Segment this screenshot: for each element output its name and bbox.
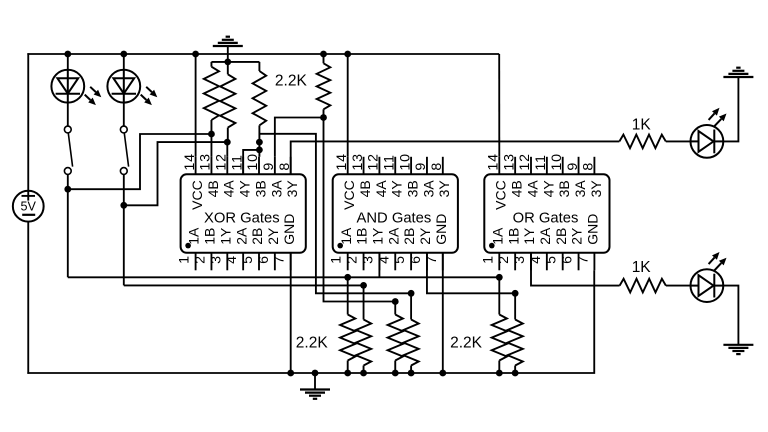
svg-text:5: 5 (392, 255, 408, 264)
svg-text:2: 2 (345, 255, 361, 264)
svg-text:4B: 4B (509, 180, 525, 197)
svg-text:VCC: VCC (341, 180, 357, 210)
node R2-4A (224, 139, 231, 146)
svg-text:6: 6 (256, 255, 272, 264)
svg-text:5V: 5V (20, 200, 36, 214)
node rail-R4 (320, 51, 327, 58)
svg-text:2A: 2A (385, 227, 401, 245)
svg-text:12: 12 (214, 153, 230, 170)
wire SW2 bottom run to AND 1B (124, 284, 364, 286)
wire R4 down to AND 2A (324, 118, 396, 302)
node AND GND-rail (439, 370, 446, 377)
wire OR 1Y to resistor R14 (531, 253, 620, 286)
ground GND top (213, 45, 243, 47)
svg-text:12: 12 (517, 153, 533, 170)
svg-text:1K: 1K (632, 259, 652, 276)
resistor R1 2.2K (210, 62, 212, 67)
wire SW1 down-left (67, 189, 69, 277)
svg-text:VCC: VCC (493, 180, 509, 210)
svg-text:3Y: 3Y (284, 180, 300, 198)
svg-text:2Y: 2Y (569, 227, 585, 245)
svg-text:VCC: VCC (189, 180, 205, 210)
wire 5V source minus down (27, 222, 29, 374)
svg-text:11: 11 (381, 154, 397, 170)
svg-text:5: 5 (240, 255, 256, 264)
svg-text:1A: 1A (489, 227, 505, 245)
svg-text:2.2K: 2.2K (275, 72, 308, 89)
wire OR 1B pulldown (514, 293, 516, 319)
node XOR GND-rail (287, 370, 294, 377)
LED D3 (691, 125, 724, 158)
resistor R3 2.2K (258, 62, 260, 71)
svg-text:3A: 3A (572, 180, 588, 198)
ground GND right-bottom (723, 344, 753, 346)
switch SW2 (120, 126, 127, 133)
svg-text:4Y: 4Y (540, 180, 556, 198)
wire XOR GND to rail (290, 253, 292, 373)
svg-text:6: 6 (560, 255, 576, 264)
svg-text:2B: 2B (249, 228, 265, 245)
wire R4 to XOR 3A (275, 118, 324, 157)
svg-text:4B: 4B (205, 180, 221, 197)
wire AND 1Y stub down (378, 253, 380, 277)
svg-text:11: 11 (533, 154, 549, 170)
wire AND 1B pulldown (363, 285, 365, 319)
svg-text:12: 12 (366, 153, 382, 170)
svg-text:8: 8 (581, 162, 597, 171)
LED D2 (107, 70, 140, 103)
wire SW2 to node (123, 174, 125, 205)
node rail-LED1 (64, 51, 71, 58)
svg-text:4: 4 (224, 255, 240, 264)
node R4net-AND2A (392, 298, 399, 305)
svg-text:XOR Gates: XOR Gates (204, 210, 280, 226)
node R12-rail (496, 370, 503, 377)
svg-text:1Y: 1Y (370, 227, 386, 245)
svg-text:13: 13 (350, 153, 366, 170)
svg-text:9: 9 (565, 162, 581, 171)
svg-text:3Y: 3Y (588, 180, 604, 198)
svg-text:2B: 2B (401, 228, 417, 245)
svg-text:1B: 1B (202, 228, 218, 245)
node ground-resistors (224, 59, 231, 66)
resistor R14 1K (620, 279, 666, 293)
svg-text:AND Gates: AND Gates (356, 210, 431, 226)
wire AND 2A pulldown (394, 302, 396, 315)
svg-text:3: 3 (208, 255, 224, 264)
svg-text:1Y: 1Y (217, 227, 233, 245)
svg-text:3B: 3B (252, 180, 268, 197)
svg-text:2A: 2A (537, 227, 553, 245)
wire bottom ground rail (27, 270, 594, 373)
svg-text:3Y: 3Y (436, 180, 452, 198)
resistor R8 2.2K (340, 315, 355, 361)
wire SW2 down-left (123, 205, 125, 285)
node sw1net-AND 1A (344, 274, 351, 281)
resistor R11 2.2K (404, 320, 419, 366)
node R11-rail (408, 370, 415, 377)
wire OR 1A pulldown (498, 277, 500, 314)
wire XOR VCC (195, 54, 197, 157)
wire LED2 to switch SW2 (123, 103, 125, 127)
node R10-rail (392, 370, 399, 377)
svg-text:1: 1 (177, 255, 193, 264)
svg-text:1B: 1B (354, 228, 370, 245)
node R1-4B (208, 131, 215, 138)
svg-text:GND: GND (281, 214, 297, 245)
resistor R9 2.2K (356, 320, 371, 366)
svg-text:2Y: 2Y (265, 227, 281, 245)
wire rail to LED1 (67, 54, 69, 70)
node SW1 out (64, 186, 71, 193)
wire AND 2Y to OR 1B (427, 253, 515, 293)
wire R1 node into pin 13 (210, 134, 212, 157)
node rail-ground (312, 370, 319, 377)
svg-text:1K: 1K (632, 116, 652, 133)
wire 3B net to AND 2B (259, 134, 411, 293)
wire AND VCC (347, 54, 349, 157)
wire SW1 to node (67, 174, 69, 189)
svg-text:5: 5 (544, 255, 560, 264)
svg-text:GND: GND (433, 214, 449, 245)
resistor R7 1K (619, 135, 665, 149)
svg-text:3: 3 (512, 255, 528, 264)
svg-text:1A: 1A (186, 227, 202, 245)
wire LED4 to ground (723, 286, 738, 345)
wire rail to LED2 (123, 54, 125, 70)
svg-text:3: 3 (360, 255, 376, 264)
node AND2Y-OR 1B (512, 290, 519, 297)
wire OR VCC (498, 54, 500, 157)
svg-text:7: 7 (575, 255, 591, 264)
svg-text:10: 10 (397, 153, 413, 170)
wire R2 node into pin 12 (226, 142, 228, 157)
svg-text:GND: GND (585, 214, 601, 245)
wire ground stub (227, 46, 229, 62)
svg-text:2: 2 (192, 255, 208, 264)
node R4 bottom (320, 114, 327, 121)
svg-text:8: 8 (429, 162, 445, 171)
wire XOR 4Y to 3B (243, 150, 259, 174)
node sw1net-OR 1A (496, 274, 503, 281)
node R13-rail (512, 370, 519, 377)
svg-text:3A: 3A (268, 180, 284, 198)
wire ground stub bottom (314, 373, 316, 390)
wire R7 to LED3 (666, 140, 691, 142)
wire XOR 3Y to resistor R7 (291, 141, 620, 174)
svg-text:9: 9 (261, 162, 277, 171)
svg-text:1Y: 1Y (521, 227, 537, 245)
svg-text:1B: 1B (505, 228, 521, 245)
ground GND right-top (723, 76, 753, 78)
wire AND 1A pulldown (347, 277, 349, 314)
wire +5V top rail (27, 53, 499, 55)
svg-text:4B: 4B (357, 180, 373, 197)
wire R14 to LED4 (666, 285, 691, 287)
svg-text:4Y: 4Y (389, 180, 405, 198)
svg-text:11: 11 (229, 154, 245, 170)
svg-text:1A: 1A (338, 227, 354, 245)
node sw2net-AND 1B (360, 282, 367, 289)
wire LED1 to switch SW1 (67, 103, 69, 127)
svg-text:10: 10 (245, 153, 261, 170)
svg-text:3B: 3B (405, 180, 421, 197)
svg-text:13: 13 (198, 153, 214, 170)
node R3-3B upper (256, 139, 263, 146)
svg-text:13: 13 (501, 153, 517, 170)
svg-text:4A: 4A (373, 180, 389, 198)
node SW2 out (120, 202, 127, 209)
node R8-rail (344, 370, 351, 377)
wire SW1 riser to XOR 4B (68, 134, 212, 189)
svg-text:2.2K: 2.2K (296, 334, 329, 351)
node rail-AND VCC (344, 51, 351, 58)
LED D4 (691, 269, 724, 302)
op-amp U3 OR Gates IC (484, 174, 609, 253)
LED D1 (51, 70, 84, 103)
svg-text:6: 6 (408, 255, 424, 264)
wire AND 2B pulldown (410, 293, 412, 319)
wire SW2 riser to XOR 4A (124, 142, 228, 205)
resistor R2 2.2K (227, 62, 229, 74)
svg-text:3B: 3B (556, 180, 572, 197)
switch SW1 (64, 126, 71, 133)
svg-text:2Y: 2Y (417, 227, 433, 245)
node rail-LED2 (120, 51, 127, 58)
resistor R12 2.2K (492, 315, 507, 361)
svg-text:4A: 4A (221, 180, 237, 198)
svg-text:10: 10 (549, 153, 565, 170)
svg-text:7: 7 (272, 255, 288, 264)
wire SW1 bottom run to OR 1A (68, 276, 500, 278)
node 3Bnet-AND2B (408, 290, 415, 297)
svg-text:8: 8 (277, 162, 293, 171)
svg-text:2A: 2A (233, 227, 249, 245)
svg-text:2.2K: 2.2K (450, 334, 483, 351)
node R9-rail (360, 370, 367, 377)
svg-text:1: 1 (480, 255, 496, 264)
svg-text:4Y: 4Y (237, 180, 253, 198)
svg-text:OR Gates: OR Gates (513, 210, 579, 226)
svg-text:2B: 2B (553, 228, 569, 245)
node 4Y-3B lower (256, 147, 263, 154)
wire AND GND to rail (442, 253, 444, 373)
svg-text:9: 9 (413, 162, 429, 171)
op-amp U1 XOR Gates IC (181, 174, 306, 253)
svg-text:3A: 3A (420, 180, 436, 198)
voltage source V1 5V (13, 191, 44, 222)
ground GND bottom (300, 388, 330, 390)
svg-text:1: 1 (329, 255, 345, 264)
wire resistor top bus (211, 61, 259, 63)
wire 5V source to rail (27, 53, 29, 191)
op-amp U2 AND Gates IC (333, 174, 458, 253)
resistor R4 2.2K (323, 54, 325, 63)
node rail-XOR VCC (192, 51, 199, 58)
resistor R10 2.2K (388, 315, 403, 361)
resistor R13 2.2K (508, 320, 523, 366)
wire LED3 to ground (723, 77, 738, 141)
svg-text:2: 2 (496, 255, 512, 264)
svg-text:4A: 4A (524, 180, 540, 198)
